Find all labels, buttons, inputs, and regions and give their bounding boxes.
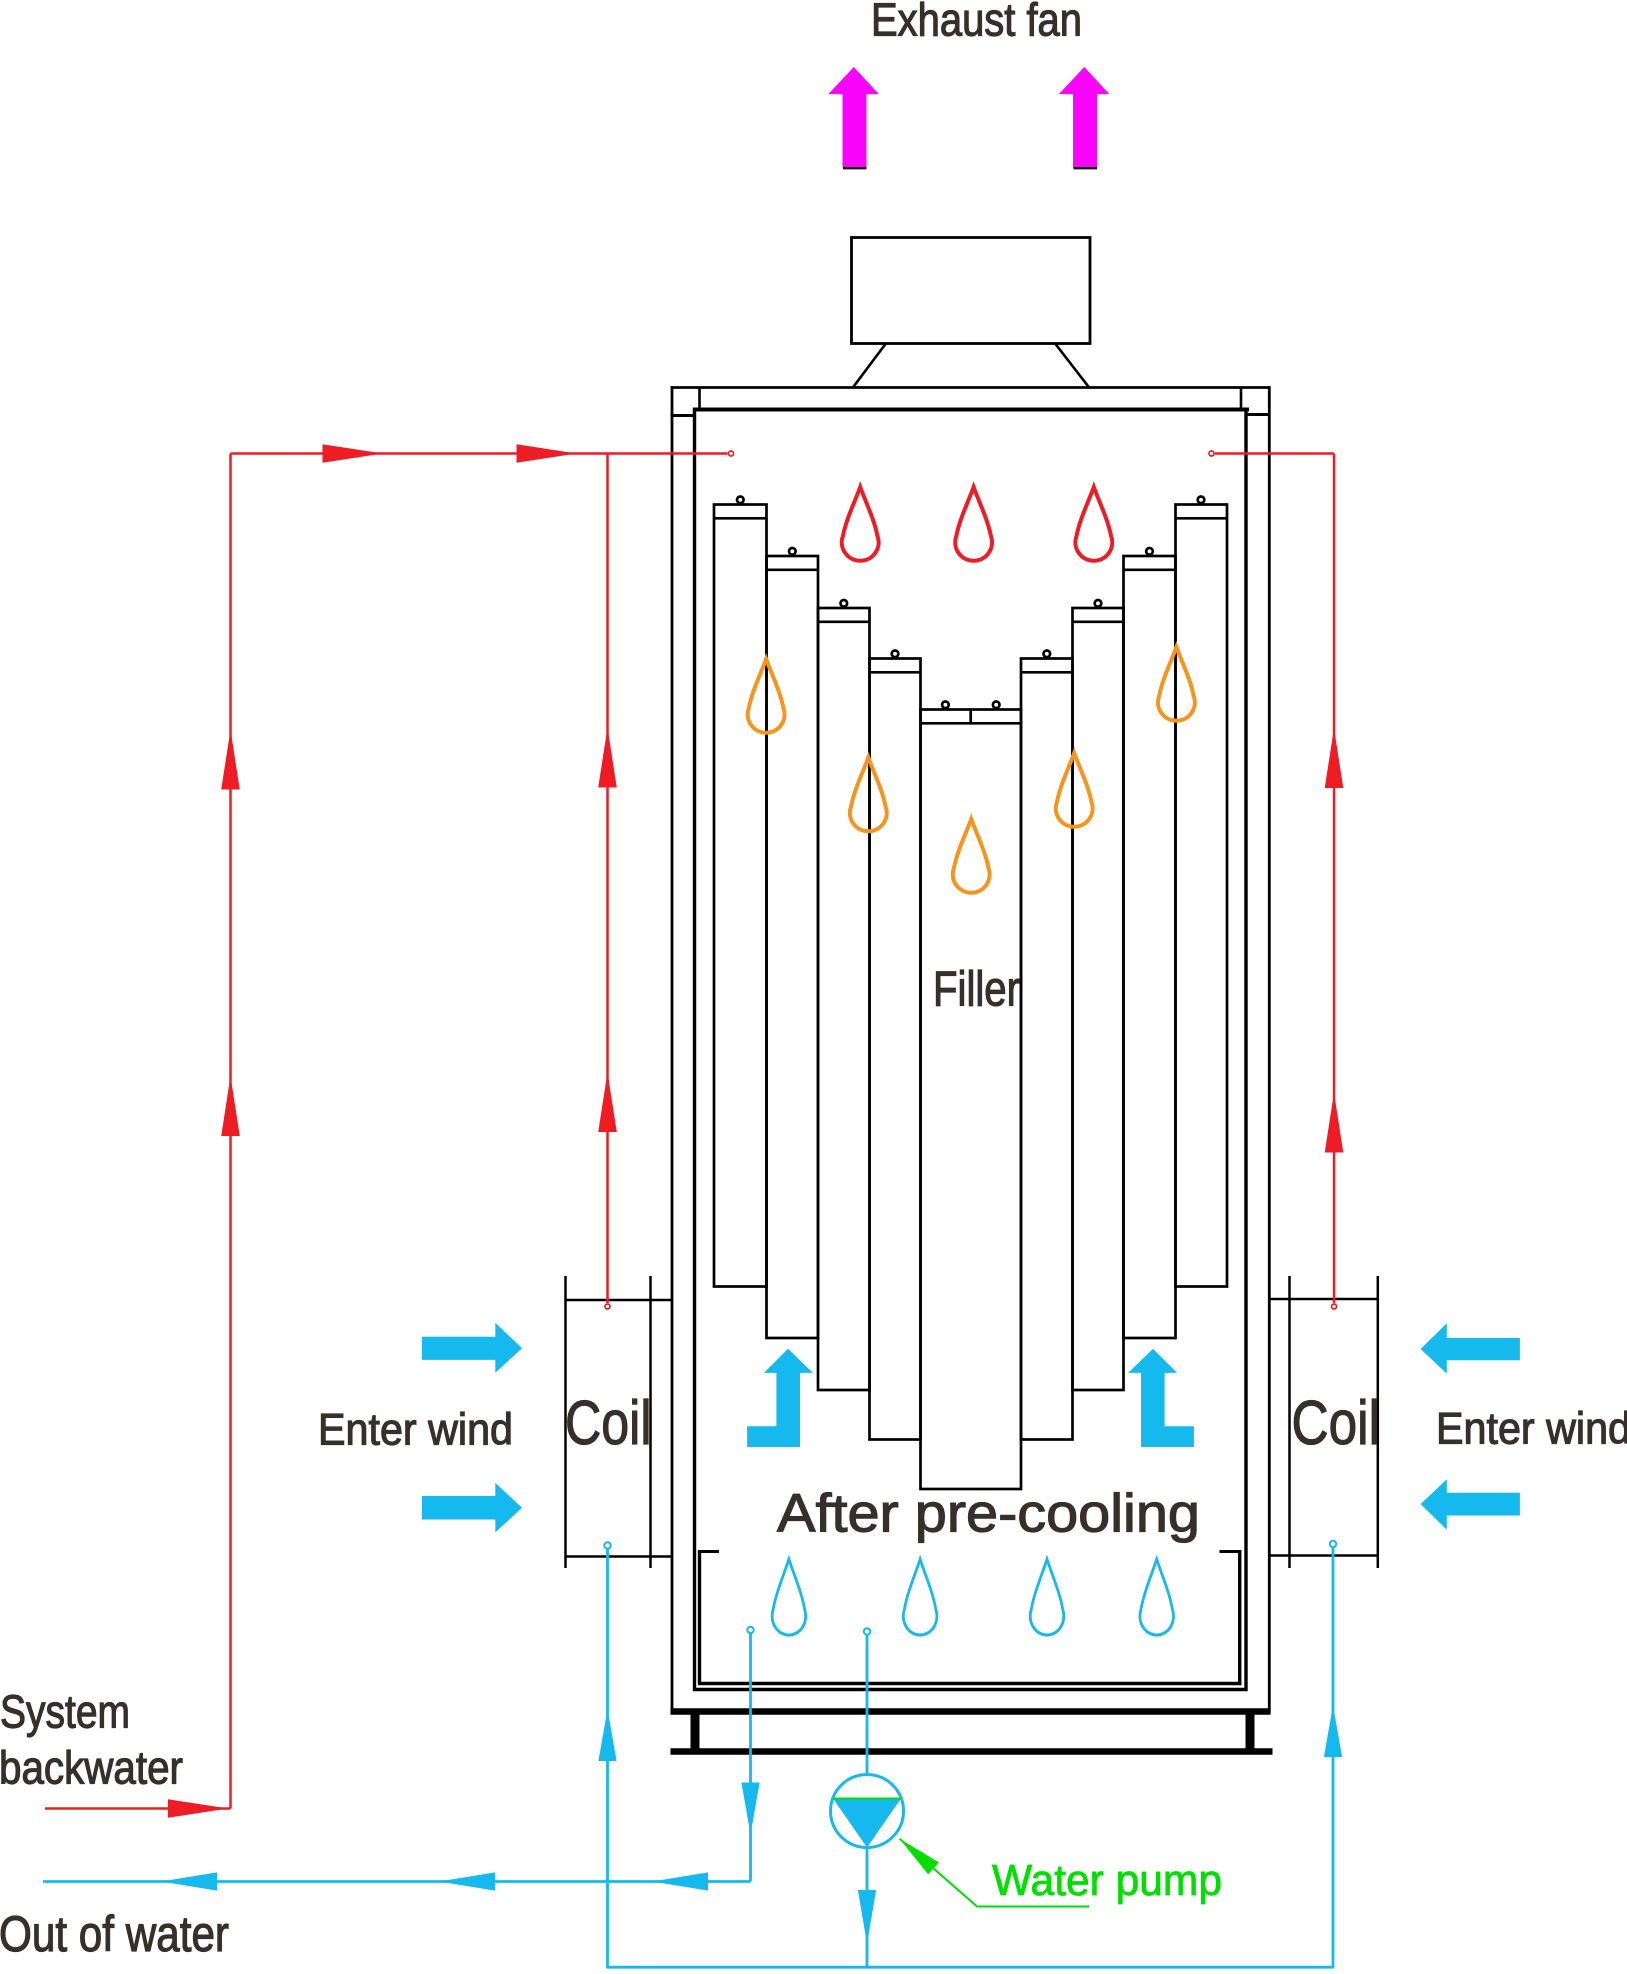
base plate: [671, 1748, 1273, 1755]
blue drop 1: [772, 1559, 806, 1635]
up arrow 2 on left coil riser: [598, 1072, 617, 1132]
lid right connector: [1240, 388, 1243, 409]
red spray drops: [842, 487, 1112, 561]
exhaust arrow right: [1059, 67, 1110, 168]
water tray left wall: [698, 1550, 701, 1684]
system backwater inlet line: [45, 1807, 231, 1810]
fan housing box: [852, 238, 1091, 344]
exhaust arrows: [828, 67, 1109, 168]
down arrow under pump: [858, 1890, 876, 1944]
corner tie left: [671, 414, 697, 417]
slat R4: [1021, 651, 1073, 1440]
node circle right coil inlet: [1332, 1304, 1337, 1309]
svg-text:Out of water: Out of water: [0, 1906, 229, 1962]
water tray bottom: [698, 1682, 1242, 1685]
lid left connector: [698, 388, 701, 409]
coil box right: [1269, 1276, 1378, 1568]
slat L2: [767, 548, 819, 1338]
up arrow 2 on right riser: [1325, 1093, 1344, 1153]
red riser from left coil: [606, 454, 609, 1304]
tray drain node left: [747, 1627, 753, 1633]
red backwater piping: [45, 444, 1343, 1818]
slat L1: [714, 497, 767, 1287]
red riser right coil: [1333, 454, 1336, 1304]
orange drop inner-left: [850, 758, 887, 832]
up arrow on left downpipe: [598, 1709, 616, 1761]
left coil downpipe: [606, 1550, 609, 1969]
water tray left tick: [698, 1550, 719, 1553]
left arrow 3: [652, 1872, 708, 1890]
tray drain left downpipe: [749, 1634, 752, 1882]
leg web right: [1246, 1714, 1255, 1749]
arrowhead right 2: [517, 444, 577, 463]
red riser far left: [229, 454, 232, 1809]
node circle left header: [729, 451, 734, 456]
slat R2: [1124, 548, 1176, 1338]
svg-text:Coil: Coil: [565, 1388, 652, 1458]
arrowhead right 1: [323, 444, 383, 463]
red drop 2: [955, 487, 992, 561]
filler slats: [714, 497, 1227, 1490]
orange drop outer-right: [1158, 647, 1195, 721]
blue falling drops: [772, 1559, 1173, 1635]
red drop 1: [842, 487, 879, 561]
coil box left: [566, 1276, 673, 1568]
bottom bus pipe: [608, 1966, 1334, 1969]
tower lid line: [693, 408, 1249, 412]
exhaust arrow left: [828, 67, 879, 168]
pump triangle top edge (green): [833, 1798, 901, 1800]
svg-text:Water pump: Water pump: [992, 1856, 1222, 1905]
left arrow 2: [439, 1872, 495, 1890]
enter wind arrow left-top: [422, 1323, 522, 1373]
arrowhead on inlet: [168, 1799, 228, 1818]
svg-text:After pre-cooling: After pre-cooling: [777, 1484, 1200, 1544]
up arrow on right downpipe: [1324, 1705, 1342, 1757]
svg-text:Enter wind: Enter wind: [1436, 1405, 1627, 1454]
leader line: [900, 1839, 1089, 1907]
leg web left: [691, 1714, 700, 1749]
up arrow 2 on far left riser: [221, 1076, 240, 1136]
up arrow 1 on far left riser: [221, 730, 240, 790]
coil boxes: [566, 1276, 1378, 1568]
water tray right wall: [1238, 1550, 1241, 1684]
tower outer bottom (thick): [671, 1708, 1271, 1715]
water tray right tick: [1220, 1550, 1242, 1553]
svg-text:Coil: Coil: [1292, 1388, 1381, 1458]
blue drop 2: [903, 1559, 937, 1635]
pump outlet downpipe: [866, 1848, 869, 1968]
svg-text:System: System: [0, 1686, 130, 1738]
orange drops: [748, 647, 1195, 893]
red drop 3: [1075, 487, 1112, 561]
orange drop center: [953, 819, 990, 893]
red top right horizontal: [1215, 452, 1334, 455]
big hollow wind arrows: [422, 1323, 1520, 1533]
slat center: [921, 702, 1022, 1490]
left arrow 1: [161, 1872, 217, 1890]
up arrow 1 on right riser: [1325, 728, 1344, 788]
slat L3: [818, 600, 870, 1390]
down arrow on drain: [741, 1783, 759, 1835]
pump circle: [831, 1775, 904, 1848]
L-shaped up arrow left: [747, 1349, 813, 1447]
tower outer shell: [671, 386, 674, 1714]
orange drop inner-right: [1056, 753, 1093, 827]
leader arrowhead: [900, 1839, 939, 1875]
slat R1: [1176, 497, 1228, 1287]
left coil outlet node: [604, 1542, 610, 1548]
orange drop outer-left: [748, 659, 785, 733]
green pump leader: [900, 1839, 1089, 1907]
svg-text:Filler: Filler: [933, 963, 1020, 1017]
slat L4: [870, 651, 921, 1440]
blue drop 3: [1030, 1559, 1064, 1635]
out-of-water pipe: [43, 1880, 751, 1883]
pump suction downpipe: [866, 1636, 869, 1775]
enter wind arrow right-bottom: [1421, 1479, 1520, 1529]
node circle left coil inlet: [605, 1304, 610, 1309]
tower inner bottom: [693, 1688, 1248, 1691]
tower inner wall left: [693, 408, 696, 1692]
corner tie right: [1245, 413, 1271, 416]
cyan water piping: [43, 1541, 1342, 1969]
svg-text:Exhaust fan: Exhaust fan: [871, 0, 1082, 46]
slat R3: [1073, 600, 1124, 1390]
enter wind arrow left-bottom: [422, 1483, 522, 1533]
fan duct left slant: [853, 344, 886, 388]
red supply line top left horizontal: [231, 452, 728, 455]
enter wind arrow right-top: [1421, 1323, 1520, 1373]
fan duct right slant: [1056, 344, 1090, 388]
pump triangle: [833, 1799, 901, 1848]
right coil outlet node: [1330, 1541, 1336, 1547]
svg-text:backwater: backwater: [0, 1742, 183, 1794]
L-shaped up arrow right: [1128, 1349, 1194, 1447]
node circle right header: [1209, 451, 1214, 456]
blue drop 4: [1140, 1559, 1174, 1635]
up arrow 1 on left coil riser: [598, 728, 617, 788]
svg-text:Enter wind: Enter wind: [318, 1406, 513, 1455]
tower inner wall right: [1244, 408, 1247, 1692]
right coil downpipe: [1332, 1548, 1335, 1969]
pump suction node: [864, 1628, 870, 1634]
